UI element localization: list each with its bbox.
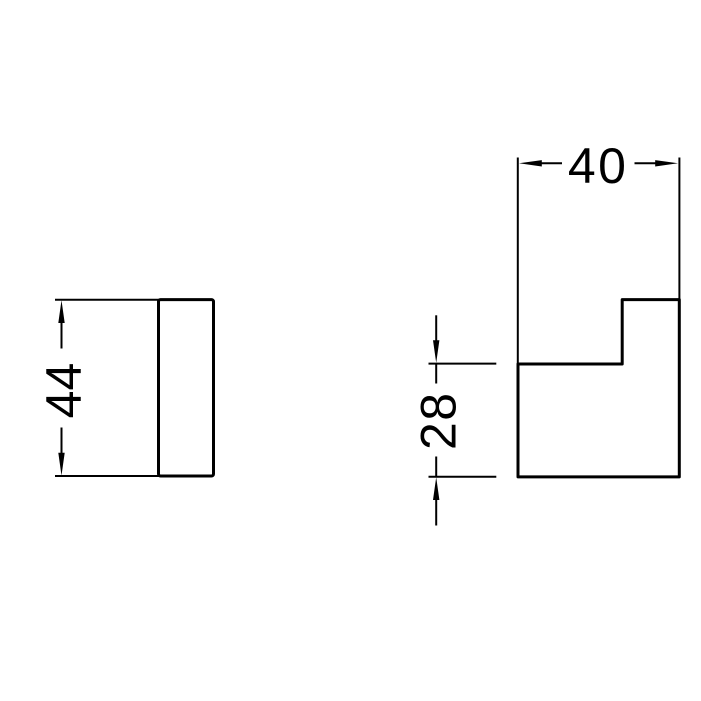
arrowhead 40 right bbox=[655, 160, 678, 166]
arrowhead 44 up bbox=[58, 300, 64, 323]
extension line top of 28 bbox=[429, 363, 497, 365]
svg-text:40: 40 bbox=[568, 138, 629, 194]
dimension line 28 upper overshoot bbox=[435, 364, 437, 384]
dimension line 44 upper segment bbox=[61, 320, 63, 349]
arrowhead 44 down bbox=[58, 453, 64, 476]
svg-text:44: 44 bbox=[36, 363, 92, 419]
dimension line 40 left segment bbox=[538, 162, 562, 164]
front view outline (hook step shape) bbox=[518, 300, 679, 477]
leader below 28 bbox=[435, 498, 437, 526]
extension line right of 40 bbox=[678, 158, 680, 302]
arrowhead 28 down bbox=[433, 340, 439, 363]
side view outline (left rectangle) bbox=[159, 300, 214, 476]
arrowhead 40 left bbox=[519, 160, 542, 166]
dimension line 40 right segment bbox=[635, 162, 660, 164]
extension line bottom of 44 bbox=[55, 475, 160, 477]
svg-text:28: 28 bbox=[410, 391, 466, 450]
arrowhead 28 up bbox=[433, 477, 439, 500]
leader above 28 bbox=[435, 315, 437, 343]
dimension line 44 lower segment bbox=[61, 428, 63, 457]
dimension line 28 lower overshoot bbox=[435, 457, 437, 477]
extension line bottom of 28 bbox=[429, 476, 497, 478]
extension line top of 44 bbox=[55, 299, 160, 301]
extension line left of 40 bbox=[517, 158, 519, 365]
